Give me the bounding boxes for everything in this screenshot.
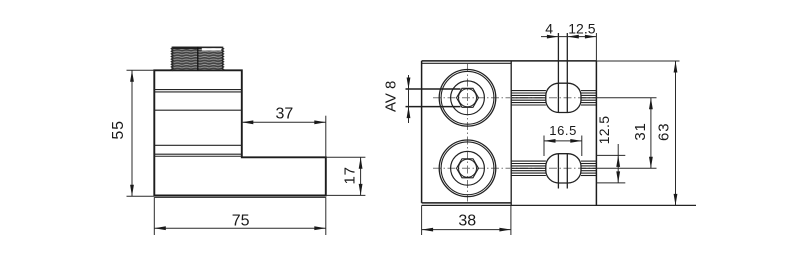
- bottom edge left section: [422, 202, 512, 204]
- screw slot lines bottom: [557, 154, 559, 189]
- cable hole oval bottom: [546, 154, 581, 183]
- svg-text:AV 8: AV 8: [383, 81, 400, 112]
- dimension 37: [242, 106, 326, 158]
- threaded stud: [171, 47, 223, 71]
- svg-text:16.5: 16.5: [549, 123, 577, 138]
- horizontal centerline top: [433, 97, 596, 99]
- svg-text:55: 55: [110, 120, 127, 139]
- body outline L-shape: [154, 70, 325, 195]
- stud centerline: [197, 47, 199, 71]
- dimension 38: [422, 205, 511, 235]
- internal line y=91.9: [154, 91, 242, 93]
- svg-text:63: 63: [656, 123, 673, 141]
- dimension 17: [326, 157, 366, 195]
- cable hole oval top: [546, 83, 581, 112]
- bottom screw circle group: [439, 140, 496, 197]
- internal line y=156.2: [154, 155, 242, 157]
- outline top edge: [422, 60, 597, 62]
- hatch serrations top-left: [511, 91, 546, 105]
- dimension AV 8: [383, 75, 461, 123]
- hex socket: [457, 88, 479, 107]
- dimension 31: [596, 98, 656, 169]
- dimension 63: [596, 61, 679, 205]
- hatch serrations bottom-right: [581, 161, 596, 175]
- separator edge: [510, 61, 512, 206]
- dimension 16.5: [544, 123, 582, 156]
- dimension 12.5 right: [596, 116, 625, 183]
- svg-text:4: 4: [545, 20, 553, 36]
- dimension 4 and 12.5 top: [541, 20, 597, 61]
- top inner line: [422, 62, 512, 64]
- hatch serrations bottom-left: [511, 161, 546, 175]
- screw slot lines top: [557, 33, 559, 113]
- base second line: [154, 196, 325, 198]
- bottom lower line / 63 extension: [422, 204, 696, 206]
- top screw circle group: [439, 70, 496, 127]
- svg-text:75: 75: [232, 212, 250, 229]
- right edge: [595, 61, 597, 206]
- svg-text:12.5: 12.5: [568, 21, 595, 37]
- stud left thread serration: [171, 47, 173, 70]
- horizontal centerline bottom: [433, 167, 596, 169]
- vertical centerline circles: [467, 64, 469, 202]
- internal line y=154.2: [154, 153, 242, 155]
- hatch serrations top-right: [581, 91, 596, 105]
- internal line y=110.2: [154, 109, 242, 111]
- left edge: [421, 61, 423, 203]
- svg-text:17: 17: [342, 166, 359, 184]
- svg-text:37: 37: [276, 106, 294, 123]
- hex socket: [457, 159, 479, 178]
- svg-text:38: 38: [458, 213, 476, 230]
- dimension 75: [154, 197, 325, 235]
- svg-text:12.5: 12.5: [596, 116, 612, 145]
- stud right thread serration: [222, 47, 224, 70]
- dimension 55: [110, 70, 154, 196]
- svg-text:31: 31: [632, 122, 649, 140]
- internal line y=89.6: [154, 89, 242, 91]
- internal line y=145.3: [154, 144, 242, 146]
